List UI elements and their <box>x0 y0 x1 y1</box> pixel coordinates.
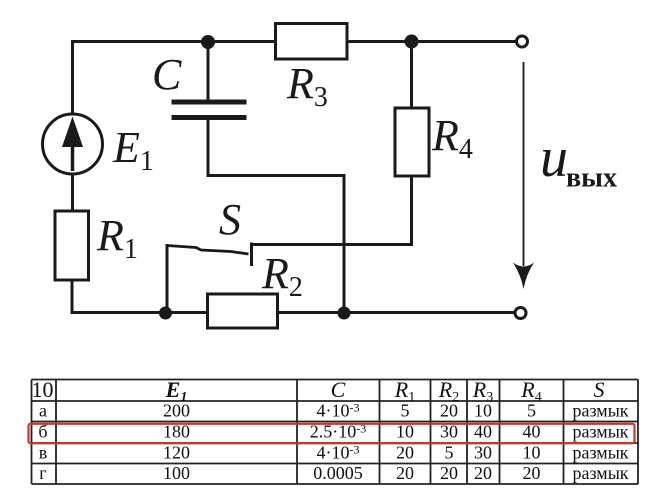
svg-text:10: 10 <box>474 401 492 421</box>
wire left from top rail to E1 <box>71 40 74 115</box>
svg-text:в: в <box>39 443 48 463</box>
resistor R3 <box>276 24 348 60</box>
svg-text:вых: вых <box>566 163 617 194</box>
svg-text:размык: размык <box>572 401 628 421</box>
resistor R4 <box>395 108 429 176</box>
node junction bottom left <box>159 307 172 320</box>
svg-text:4·10-3: 4·10-3 <box>317 401 360 421</box>
table grid <box>32 380 639 485</box>
svg-text:5: 5 <box>401 401 410 421</box>
svg-text:4·10-3: 4·10-3 <box>317 443 360 463</box>
wire R3 right to node <box>410 42 413 109</box>
svg-text:C: C <box>152 50 182 99</box>
node junction top right <box>405 35 419 49</box>
svg-text:30: 30 <box>474 443 492 463</box>
svg-text:200: 200 <box>163 401 190 421</box>
svg-text:20: 20 <box>396 443 414 463</box>
svg-text:а: а <box>39 401 47 421</box>
table row b (highlighted) <box>38 422 628 442</box>
table row v <box>39 443 629 463</box>
svg-text:C: C <box>331 377 346 402</box>
wire R4 bottom to switch horizontal <box>252 243 413 246</box>
svg-text:S: S <box>594 377 605 402</box>
svg-text:S: S <box>219 195 241 244</box>
svg-text:20: 20 <box>440 401 458 421</box>
svg-text:размык: размык <box>572 443 628 463</box>
wire bottom rail <box>71 311 516 314</box>
capacitor C plates <box>172 102 247 118</box>
highlight box row b <box>29 424 635 444</box>
switch S right contact tick <box>250 243 253 267</box>
svg-text:E1: E1 <box>112 123 154 177</box>
resistor R1 <box>55 211 89 280</box>
svg-text:10: 10 <box>32 377 54 402</box>
wire R4 bottom vertical <box>410 176 413 245</box>
wire capacitor bottom horizontal <box>207 174 345 177</box>
svg-text:10: 10 <box>523 443 541 463</box>
svg-text:20: 20 <box>440 463 458 483</box>
svg-text:u: u <box>540 127 568 189</box>
svg-text:г: г <box>39 463 46 483</box>
svg-text:100: 100 <box>163 463 190 483</box>
wire capacitor top lead <box>207 41 210 100</box>
svg-text:R2: R2 <box>261 249 303 303</box>
voltage source E1 <box>43 114 103 174</box>
wire R1 bottom to bottom rail <box>71 279 74 314</box>
wire switch left vertical <box>166 244 169 313</box>
svg-text:R3: R3 <box>286 59 328 113</box>
table header row <box>32 377 605 405</box>
svg-text:20: 20 <box>523 463 541 483</box>
resistor R2 <box>208 294 278 328</box>
svg-text:20: 20 <box>474 463 492 483</box>
node junction top-left of C <box>201 35 215 49</box>
svg-text:120: 120 <box>163 443 190 463</box>
wire capacitor bottom lead <box>207 119 210 174</box>
wire E1 bottom to R1 <box>71 172 74 212</box>
node junction bottom right <box>338 307 351 320</box>
svg-text:5: 5 <box>445 443 454 463</box>
arrow u_vyh <box>513 62 534 289</box>
output terminal top <box>517 36 528 47</box>
svg-text:R1: R1 <box>96 211 138 265</box>
svg-text:5: 5 <box>527 401 536 421</box>
wire capacitor branch down to bottom node <box>343 174 346 313</box>
svg-text:0.0005: 0.0005 <box>313 463 363 483</box>
output terminal bottom <box>515 308 526 319</box>
switch S blade <box>167 246 249 255</box>
table row g <box>39 463 628 483</box>
svg-text:размык: размык <box>572 463 628 483</box>
wire top rail <box>72 40 517 43</box>
table row a <box>39 401 629 421</box>
svg-text:R4: R4 <box>431 111 473 165</box>
svg-text:20: 20 <box>396 463 414 483</box>
